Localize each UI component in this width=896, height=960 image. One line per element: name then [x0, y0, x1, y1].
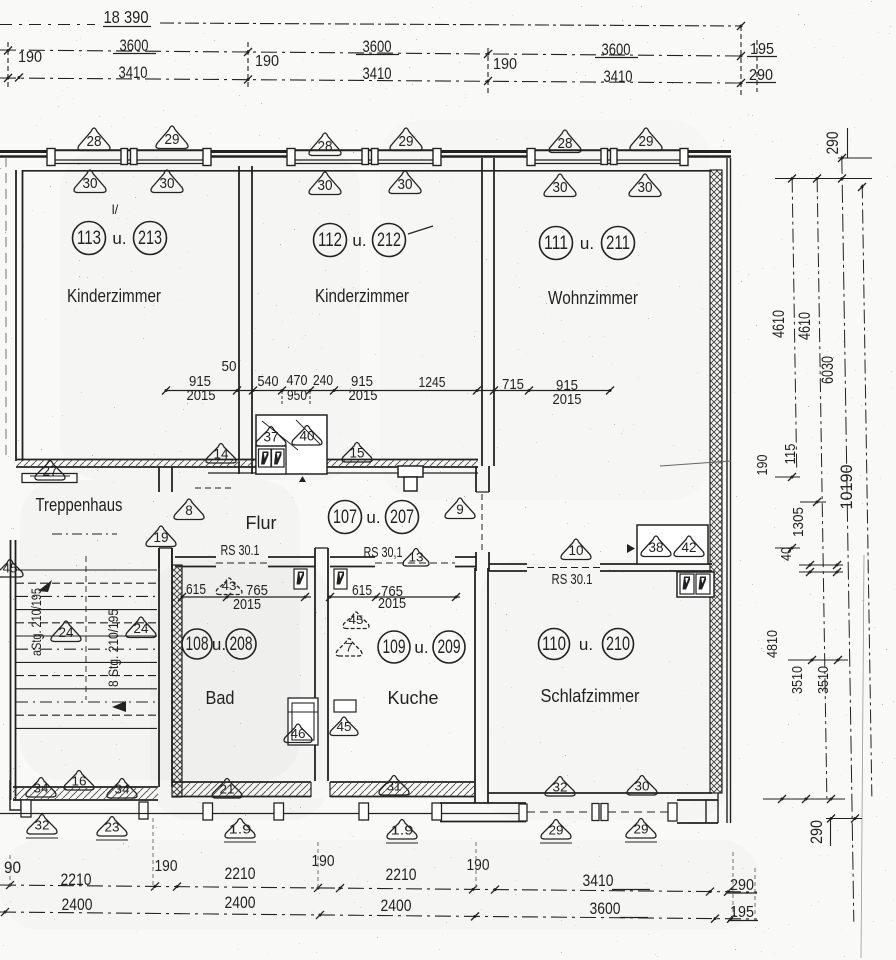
svg-text:42: 42: [682, 540, 697, 555]
svg-text:3600: 3600: [363, 37, 392, 56]
svg-text:290: 290: [730, 877, 754, 894]
svg-text:112: 112: [318, 230, 342, 251]
svg-text:24: 24: [134, 621, 149, 636]
svg-text:3600: 3600: [602, 40, 631, 59]
svg-text:RS 30.1: RS 30.1: [221, 543, 260, 559]
svg-text:190: 190: [255, 53, 279, 70]
svg-text:107: 107: [333, 507, 357, 528]
svg-text:29: 29: [165, 131, 180, 148]
svg-text:113: 113: [77, 228, 101, 249]
svg-text:37: 37: [264, 430, 279, 445]
svg-text:190: 190: [754, 455, 771, 476]
svg-text:2015: 2015: [553, 392, 582, 408]
svg-text:3600: 3600: [590, 899, 621, 918]
svg-text:RS 30.1: RS 30.1: [552, 572, 593, 588]
svg-text:18 390: 18 390: [104, 7, 149, 27]
svg-text:27: 27: [43, 464, 58, 479]
svg-text:90: 90: [4, 859, 21, 877]
svg-text:13: 13: [409, 551, 424, 565]
svg-text:28: 28: [87, 133, 102, 150]
svg-text:15: 15: [350, 446, 365, 461]
svg-text:2400: 2400: [62, 895, 93, 914]
svg-text:28: 28: [318, 138, 333, 155]
svg-text:190: 190: [312, 853, 335, 870]
svg-text:40: 40: [778, 547, 795, 561]
svg-text:190: 190: [493, 56, 517, 73]
svg-text:45: 45: [349, 613, 364, 627]
svg-text:211: 211: [606, 233, 630, 254]
svg-text:213: 213: [138, 228, 162, 249]
svg-text:109: 109: [383, 637, 406, 658]
svg-text:210: 210: [606, 634, 630, 655]
svg-text:1245: 1245: [419, 375, 446, 391]
svg-text:6030: 6030: [819, 356, 837, 384]
svg-text:470: 470: [287, 373, 308, 389]
svg-text:195: 195: [750, 41, 774, 58]
svg-text:30: 30: [553, 179, 568, 196]
svg-text:Kuche: Kuche: [388, 688, 439, 708]
svg-text:l/: l/: [112, 202, 119, 217]
svg-text:195: 195: [730, 904, 754, 921]
svg-text:115: 115: [782, 444, 799, 465]
svg-text:4810: 4810: [764, 630, 781, 658]
svg-text:Bad: Bad: [206, 688, 235, 708]
svg-text:u.: u.: [366, 508, 380, 527]
svg-text:u.: u.: [112, 229, 126, 248]
svg-text:615: 615: [352, 582, 372, 599]
svg-text:715: 715: [502, 377, 524, 393]
svg-text:2015: 2015: [233, 596, 261, 613]
svg-text:u.: u.: [579, 635, 593, 654]
svg-text:2210: 2210: [386, 865, 417, 884]
svg-text:2210: 2210: [225, 864, 256, 883]
svg-text:209: 209: [438, 637, 461, 658]
svg-text:3410: 3410: [119, 63, 148, 82]
svg-text:10: 10: [569, 543, 584, 558]
svg-text:16: 16: [72, 774, 87, 789]
svg-text:31: 31: [387, 779, 402, 794]
svg-text:10190: 10190: [838, 465, 856, 510]
svg-text:Kinderzimmer: Kinderzimmer: [315, 286, 409, 306]
svg-text:30: 30: [398, 176, 413, 193]
svg-text:290: 290: [824, 132, 842, 155]
svg-text:290: 290: [808, 820, 826, 844]
svg-text:34: 34: [115, 782, 130, 797]
svg-text:1305: 1305: [790, 507, 807, 537]
svg-text:28: 28: [558, 135, 573, 152]
svg-text:2400: 2400: [225, 893, 256, 912]
svg-text:32: 32: [35, 818, 50, 833]
svg-text:3600: 3600: [120, 36, 149, 55]
svg-text:45: 45: [337, 720, 352, 734]
svg-text:23: 23: [105, 820, 120, 835]
svg-text:Treppenhaus: Treppenhaus: [36, 495, 123, 515]
svg-text:950: 950: [287, 388, 307, 404]
svg-text:2400: 2400: [381, 896, 412, 915]
svg-text:2210: 2210: [61, 870, 92, 889]
svg-text:4610: 4610: [796, 312, 814, 340]
svg-text:30: 30: [160, 175, 175, 192]
svg-text:3510: 3510: [815, 666, 832, 694]
svg-text:29: 29: [634, 822, 649, 837]
svg-text:240: 240: [313, 373, 333, 389]
svg-text:3510: 3510: [789, 666, 806, 694]
svg-text:615: 615: [186, 581, 206, 598]
svg-text:3410: 3410: [604, 67, 633, 86]
svg-text:aStg. 210/195: aStg. 210/195: [29, 588, 44, 656]
svg-text:2015: 2015: [378, 595, 406, 612]
svg-text:29: 29: [399, 133, 414, 150]
svg-text:30: 30: [83, 175, 98, 192]
svg-text:2015: 2015: [187, 388, 216, 404]
svg-text:14: 14: [214, 447, 229, 462]
svg-text:u.: u.: [414, 638, 428, 657]
svg-text:212: 212: [377, 230, 401, 251]
svg-text:3410: 3410: [583, 871, 614, 890]
svg-text:43: 43: [222, 579, 237, 593]
svg-text:29: 29: [639, 133, 654, 150]
svg-text:3410: 3410: [363, 64, 392, 83]
svg-text:2015: 2015: [349, 388, 378, 404]
svg-text:190: 190: [18, 49, 42, 66]
svg-text:46: 46: [291, 727, 306, 741]
svg-text:110: 110: [542, 634, 566, 655]
svg-text:540: 540: [258, 374, 279, 390]
svg-text:40: 40: [300, 429, 315, 444]
svg-text:RS 30,1: RS 30,1: [364, 545, 403, 561]
svg-text:19: 19: [154, 530, 169, 545]
svg-text:8: 8: [185, 503, 193, 518]
svg-text:45: 45: [3, 562, 18, 576]
svg-text:7: 7: [345, 641, 353, 655]
svg-text:111: 111: [544, 233, 568, 254]
svg-text:4610: 4610: [770, 310, 788, 338]
svg-text:34: 34: [34, 781, 49, 796]
svg-text:207: 207: [390, 507, 414, 528]
svg-text:108: 108: [186, 634, 209, 655]
svg-text:9: 9: [456, 502, 464, 517]
svg-text:32: 32: [553, 780, 568, 795]
svg-text:208: 208: [230, 634, 253, 655]
svg-text:Wohnzimmer: Wohnzimmer: [548, 288, 638, 308]
svg-text:21: 21: [220, 782, 235, 797]
svg-text:30: 30: [635, 779, 650, 794]
svg-text:1.9: 1.9: [391, 823, 414, 838]
svg-text:24: 24: [59, 625, 74, 640]
svg-text:u.: u.: [212, 635, 226, 654]
svg-text:Kinderzimmer: Kinderzimmer: [67, 286, 161, 306]
svg-text:u.: u.: [580, 234, 594, 253]
svg-text:30: 30: [318, 177, 333, 194]
svg-text:8 Stg. 210/195: 8 Stg. 210/195: [106, 609, 121, 687]
svg-text:u.: u.: [352, 231, 366, 250]
svg-text:29: 29: [549, 823, 564, 838]
svg-text:38: 38: [649, 540, 664, 555]
svg-text:Schlafzimmer: Schlafzimmer: [541, 686, 640, 706]
svg-text:190: 190: [155, 858, 178, 875]
svg-text:190: 190: [467, 857, 490, 874]
svg-text:30: 30: [638, 179, 653, 196]
svg-text:290: 290: [749, 67, 773, 84]
svg-text:50: 50: [222, 359, 237, 375]
svg-text:Flur: Flur: [246, 513, 277, 533]
svg-text:1.9: 1.9: [229, 822, 252, 837]
